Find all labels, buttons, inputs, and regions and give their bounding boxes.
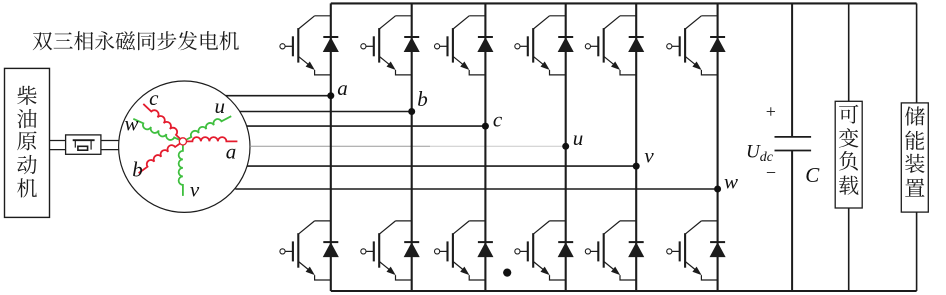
svg-text:C: C	[805, 163, 820, 187]
wire phase w	[235, 188, 717, 190]
wire leg b vertical bus	[411, 3, 413, 291]
diode D6 (top, leg w)	[710, 37, 725, 52]
wire DC- bottom rail	[331, 290, 917, 292]
coupling inner symbol	[73, 140, 95, 150]
diode D3 (top, leg c)	[478, 37, 493, 52]
coupling box	[66, 135, 101, 154]
wire DC+ top rail	[331, 2, 917, 4]
IGBT Q6 (top, leg w)	[667, 16, 718, 75]
label: 可变负载 (vertical)	[839, 105, 859, 195]
label: generator title 双三相永磁同步发电机	[33, 31, 239, 50]
wire load branch bottom	[848, 208, 850, 291]
wire capacitor branch top	[791, 3, 793, 137]
energy storage box 储能装置	[901, 103, 928, 212]
label: 柴油原动机 (vertical)	[17, 86, 37, 198]
svg-text:v: v	[644, 144, 654, 168]
wire leg w vertical bus	[717, 3, 719, 291]
wire storage branch top	[916, 3, 918, 103]
svg-text:a: a	[226, 139, 237, 163]
wire storage branch bottom	[916, 212, 918, 291]
wire leg a vertical bus	[330, 3, 332, 291]
generator body circle	[119, 81, 250, 212]
wire leg v vertical bus	[635, 3, 637, 291]
svg-text:w: w	[124, 112, 138, 136]
capacitor C plates	[775, 137, 812, 151]
winding star center node	[179, 138, 186, 145]
diode D11 (bottom, leg v)	[629, 242, 644, 257]
svg-text:b: b	[132, 158, 143, 182]
IGBT Q9 (bottom, leg c)	[435, 221, 486, 280]
diode D4 (top, leg u)	[558, 37, 573, 52]
svg-text:u: u	[215, 94, 226, 118]
diode D5 (top, leg v)	[629, 37, 644, 52]
wire phase v	[247, 165, 636, 167]
shaft (double line) right	[101, 141, 119, 150]
node c junction dot	[482, 123, 489, 130]
svg-text:a: a	[337, 76, 348, 100]
IGBT Q4 (top, leg u)	[515, 16, 566, 75]
wire phase c	[247, 125, 486, 127]
winding u (green, upper-right)	[186, 116, 231, 140]
svg-text:b: b	[417, 87, 428, 111]
winding v (green, down)	[179, 145, 183, 196]
node v junction dot	[633, 163, 640, 170]
IGBT Q2 (top, leg b)	[361, 16, 412, 75]
winding c (red, upper-left)	[143, 104, 180, 139]
junction dot (isolated, bottom middle)	[503, 269, 511, 277]
wire leg u vertical bus	[565, 3, 567, 291]
IGBT Q12 (bottom, leg w)	[667, 221, 718, 280]
diode D12 (bottom, leg w)	[710, 242, 725, 257]
winding a (red, right)	[187, 137, 238, 141]
label: 储能装置 (vertical)	[905, 106, 925, 196]
diode D1 (top, leg a)	[323, 37, 338, 52]
node a junction dot	[327, 92, 334, 99]
IGBT Q3 (top, leg c)	[435, 16, 486, 75]
node b junction dot	[408, 108, 415, 115]
node w junction dot	[714, 186, 721, 193]
svg-text:+: +	[766, 102, 776, 122]
diesel prime mover box 柴油原动机	[5, 68, 50, 217]
IGBT Q8 (bottom, leg b)	[361, 221, 412, 280]
svg-text:v: v	[190, 177, 200, 201]
winding w (green, left)	[133, 119, 179, 140]
wire leg c vertical bus	[484, 3, 486, 291]
diode D10 (bottom, leg u)	[558, 242, 573, 257]
shaft (double line) left	[50, 141, 66, 150]
wire phase u (faint)	[250, 145, 430, 147]
svg-text:w: w	[724, 170, 738, 194]
wire phase b	[240, 111, 412, 113]
diode D8 (bottom, leg b)	[404, 242, 419, 257]
svg-text:−: −	[766, 162, 776, 182]
IGBT Q5 (top, leg v)	[585, 16, 636, 75]
diode D2 (top, leg b)	[404, 37, 419, 52]
winding b (red, lower-left)	[139, 144, 180, 174]
IGBT Q11 (bottom, leg v)	[585, 221, 636, 280]
svg-text:c: c	[493, 107, 503, 131]
svg-text:c: c	[149, 86, 159, 110]
wire capacitor branch bottom	[791, 151, 793, 292]
variable load box 可变负载	[835, 101, 862, 208]
diode D7 (bottom, leg a)	[323, 242, 338, 257]
wire load branch top	[848, 3, 850, 101]
node u junction dot	[562, 143, 569, 150]
IGBT Q7 (bottom, leg a)	[280, 221, 331, 280]
IGBT Q10 (bottom, leg u)	[515, 221, 566, 280]
svg-text:u: u	[573, 126, 584, 150]
wire phase a	[226, 95, 331, 97]
IGBT Q1 (top, leg a)	[280, 16, 331, 75]
diode D9 (bottom, leg c)	[478, 242, 493, 257]
